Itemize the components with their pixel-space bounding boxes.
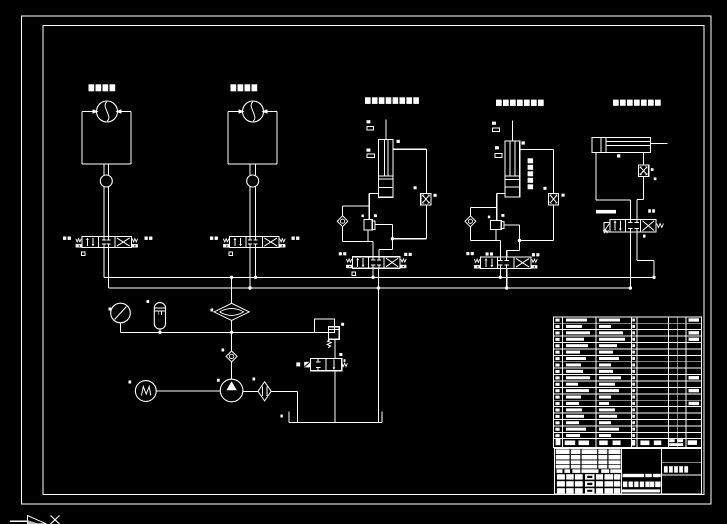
label 5YA xyxy=(63,237,66,240)
pump P1 circle xyxy=(220,379,243,402)
label square under valve V1 xyxy=(82,252,85,255)
wire g3 pilot line xyxy=(375,225,393,257)
label 8YA xyxy=(292,237,295,240)
wire motor1 A/B lines xyxy=(104,164,109,237)
label 6YA xyxy=(145,237,148,240)
wire F2 down xyxy=(519,205,553,241)
wire unload valve drain to tank xyxy=(334,371,336,423)
junction dot V2 T xyxy=(248,286,251,289)
wire valve V5 P drop to P bus end xyxy=(637,232,654,277)
wire suction line xyxy=(271,391,297,422)
label gauge item xyxy=(109,308,112,311)
valve V3 4/3 solenoid directional valve xyxy=(346,257,406,269)
pressure gauge G xyxy=(111,303,131,332)
callout box g4 a xyxy=(493,128,500,132)
wire C2 rod side port xyxy=(520,150,554,194)
throttle valve F3 xyxy=(638,165,648,176)
label g3 throttle left xyxy=(414,186,417,189)
label 11YA xyxy=(466,252,469,255)
label B2 right xyxy=(501,214,504,217)
label 7YA xyxy=(210,237,213,240)
wire pump riser xyxy=(231,277,233,379)
vertical note text xyxy=(528,158,534,163)
check filter D2 diamond xyxy=(465,216,476,227)
label suction filter item xyxy=(253,378,256,381)
label g4 throttle right xyxy=(562,194,565,197)
label B xyxy=(344,359,346,362)
junction dot V4 P xyxy=(499,276,502,279)
cylinder C2 rod xyxy=(511,121,513,142)
label 9YA xyxy=(339,252,342,255)
wire C2 piston side port xyxy=(497,193,505,220)
label g5 throttle b xyxy=(654,177,657,180)
junction dot g4 pilot xyxy=(518,239,521,242)
label tank item xyxy=(281,415,283,418)
label g5 under cylinder xyxy=(617,154,620,157)
wire valve V2 T drop xyxy=(249,248,251,289)
unloading valve UV 2/2 xyxy=(310,359,341,371)
cylinder C3 body horizontal xyxy=(592,138,650,153)
suction filter FL2 xyxy=(258,382,271,401)
unloading valve spring xyxy=(342,363,348,366)
relief valve RV pilot box xyxy=(315,319,335,332)
wire g4 A riser to valve xyxy=(499,240,501,257)
label square under valve V2 xyxy=(229,252,232,255)
label motor2 title xyxy=(231,84,237,91)
main filter FL1 xyxy=(214,303,249,320)
check valve CV xyxy=(226,351,237,362)
wire valve V1 T to bus xyxy=(108,248,110,289)
wire valve V4 T drop xyxy=(506,269,508,289)
parts list row texts xyxy=(555,318,699,437)
junction dot V3 T bus xyxy=(377,286,380,289)
wire C1 rod side port xyxy=(393,149,426,193)
label S2 xyxy=(296,362,300,366)
wire g3 bypass loop xyxy=(343,206,374,242)
accumulator A xyxy=(154,303,165,333)
label relief Y1 xyxy=(341,323,344,326)
wire g4 bypass loop xyxy=(470,207,500,240)
junction dot V2 P xyxy=(254,276,257,279)
callout label g4 a xyxy=(492,122,496,125)
wire valve V1 P to bus xyxy=(103,248,105,278)
label g3 item right of cylinder xyxy=(397,140,400,143)
unloading valve solenoid box xyxy=(304,362,310,368)
label P1 xyxy=(486,252,489,255)
valve V4 4/3 solenoid directional valve xyxy=(474,257,537,269)
label filter item xyxy=(211,309,214,312)
label motor item xyxy=(129,381,132,384)
callout box g4 b xyxy=(495,154,502,158)
parts list table grid xyxy=(554,317,702,448)
wire g4 pilot line xyxy=(504,225,519,257)
junction dot V3 P xyxy=(371,276,374,279)
wire C3 right port through throttle xyxy=(637,153,644,220)
junction dot V4 T xyxy=(505,286,508,289)
label g3 throttle right xyxy=(434,194,437,197)
label cylinder3 title xyxy=(613,100,619,106)
label cylinder1 title xyxy=(365,97,371,104)
label 13YA xyxy=(648,209,651,212)
label 12YA xyxy=(532,253,535,256)
wire valve V4 P drop xyxy=(499,269,501,278)
title block frame xyxy=(555,448,702,494)
wire valve V2 P drop xyxy=(255,248,257,278)
motor M1 loop wire xyxy=(82,112,131,165)
callout label g4 b xyxy=(495,146,499,149)
junction dot accumulator xyxy=(158,331,161,334)
wire valve V3 P drop xyxy=(372,268,374,277)
check filter D1 diamond xyxy=(337,216,347,227)
relief valve spring xyxy=(327,339,331,347)
label pump item xyxy=(217,379,220,382)
cylinder C1 rod xyxy=(385,120,387,140)
balance valve B2 xyxy=(490,220,504,229)
wire valve V3 T return to tank xyxy=(378,268,380,422)
parts list header row texts xyxy=(556,439,697,446)
cylinder C2 body xyxy=(505,141,520,197)
label B2 left xyxy=(488,216,490,219)
motor M2 loop wire xyxy=(228,112,277,165)
junction ball motor1 xyxy=(100,175,112,187)
label square under valve V3 xyxy=(352,272,355,275)
throttle valve F1 xyxy=(421,193,431,205)
wire C1 piston side port xyxy=(369,193,378,219)
junction dot V5 P xyxy=(652,276,655,279)
label B1 right xyxy=(374,214,377,217)
throttle valve F2 xyxy=(548,193,558,205)
label check item xyxy=(222,349,225,352)
motor M1 circle xyxy=(93,101,122,122)
cylinder C3 rod extension xyxy=(650,143,667,145)
cylinder C1 body xyxy=(378,140,393,198)
label KO xyxy=(339,353,342,356)
junction ball motor2 xyxy=(247,175,259,187)
callout label g3 a xyxy=(367,120,371,123)
wire motor shaft xyxy=(156,390,220,392)
label 10YA xyxy=(404,253,407,256)
label accumulator item xyxy=(147,300,150,303)
wire g3 A riser to valve xyxy=(372,241,374,256)
valve V5 4/3 manual directional valve xyxy=(603,219,663,233)
electric motor EM xyxy=(135,381,156,402)
label g4 item right of cylinder xyxy=(522,141,525,144)
tank T xyxy=(289,411,382,422)
wire B2 bottom drop xyxy=(495,230,497,241)
callout label g3 b xyxy=(367,149,371,152)
valve V1 4/3 solenoid directional valve xyxy=(76,237,138,248)
filled note bar g5 xyxy=(596,210,616,214)
balance valve B1 xyxy=(364,219,375,230)
wire gauge manifold line xyxy=(121,331,315,333)
wire B1 bottom drop xyxy=(367,230,369,241)
junction dot g3 pilot xyxy=(391,237,394,240)
callout box g3 b xyxy=(367,154,374,158)
wire pump outlet right xyxy=(243,390,258,392)
junction dot V5 T xyxy=(629,286,632,289)
callout box g3 a xyxy=(367,127,374,131)
valve V2 4/3 solenoid directional valve xyxy=(223,237,285,248)
title block middle texts xyxy=(622,474,661,493)
label g4 throttle left xyxy=(543,187,546,190)
wire F1 down xyxy=(392,205,426,239)
label under valve V5 xyxy=(643,235,646,238)
wire T bus xyxy=(109,287,631,289)
title block left grid texts xyxy=(556,449,621,493)
label cylinder2 title xyxy=(496,100,502,106)
title block drawing title xyxy=(664,466,668,472)
wire P bus xyxy=(104,276,654,278)
junction dot riser gauge line xyxy=(230,331,233,334)
label g5 throttle a xyxy=(651,168,654,171)
wire valve V5 T drop to T bus end xyxy=(629,232,631,288)
motor M2 circle xyxy=(239,101,268,122)
wire motor2 A/B lines xyxy=(250,164,256,237)
wire C3 left port xyxy=(596,153,630,220)
junction dot riser P bus xyxy=(230,276,233,279)
label B1 left xyxy=(362,215,364,218)
wire relief to unload valve xyxy=(334,339,336,358)
relief valve RV main box xyxy=(328,327,339,340)
label motor1 title xyxy=(89,84,95,91)
UCS axis icon xyxy=(10,516,60,524)
